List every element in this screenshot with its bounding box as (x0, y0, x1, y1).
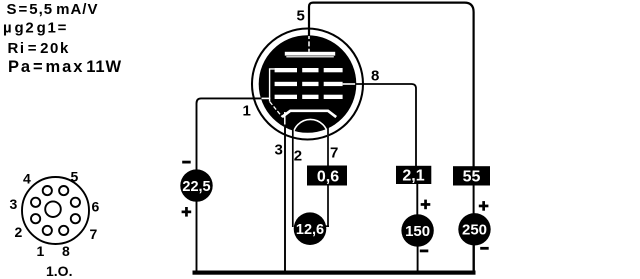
socket pin hole 8 (59, 226, 68, 235)
svg-text:8: 8 (371, 68, 379, 85)
socket pin hole 5 (59, 186, 68, 195)
wire 2,1 box to 150 voltmeter (416, 184, 418, 216)
svg-text:3: 3 (275, 142, 283, 159)
svg-text:3: 3 (10, 196, 18, 212)
cathode lead inside tube (284, 112, 286, 127)
ground rail (193, 271, 476, 275)
svg-text:2: 2 (294, 148, 302, 165)
svg-text:8: 8 (62, 243, 70, 259)
wire 250 voltmeter to rail (473, 245, 475, 271)
svg-text:1: 1 (243, 103, 251, 120)
wire 150 voltmeter to rail (417, 246, 419, 271)
milliammeter 55 mA box (453, 166, 490, 185)
cathode (282, 111, 336, 117)
svg-text:1: 1 (37, 243, 45, 259)
svg-text:6: 6 (92, 198, 100, 214)
socket pin hole 3 (31, 198, 40, 207)
socket pin hole 2 (31, 214, 40, 223)
svg-text:12,6: 12,6 (296, 222, 324, 238)
anode plate (white bar) (285, 52, 335, 58)
svg-text:1.O.: 1.O. (46, 263, 72, 279)
socket pin hole 4 (43, 186, 52, 195)
wire pin 2 heater (292, 128, 294, 227)
wire pin 8 screen grid (355, 84, 416, 167)
socket pin hole 7 (71, 214, 80, 223)
svg-text:22,5: 22,5 (182, 179, 210, 195)
svg-text:0,6: 0,6 (317, 168, 339, 185)
polarity plus (250) (479, 201, 489, 211)
polarity minus (250) (480, 247, 489, 250)
socket pin hole 1 (43, 226, 52, 235)
svg-text:µg2g1=: µg2g1= (3, 20, 68, 37)
tube V1 internal black disc (259, 35, 357, 133)
wire pin 7 heater (upper) (327, 125, 329, 167)
polarity plus (150) (421, 200, 431, 210)
pin 5 lead inside tube (dashed) (308, 34, 310, 52)
socket pin hole 6 (71, 198, 80, 207)
pin 1 lead inside tube (260, 97, 271, 99)
heater arc (293, 119, 328, 137)
grid bracket to pin 1 (270, 69, 275, 102)
svg-text:250: 250 (462, 222, 487, 239)
grid row g2 (middle, to pin 8) (275, 82, 358, 86)
voltmeter 250 V (458, 213, 490, 245)
grid row g1 (bottom) (275, 95, 343, 99)
svg-text:7: 7 (90, 226, 98, 242)
svg-text:4: 4 (23, 171, 31, 187)
wire pin 3 cathode (284, 125, 286, 272)
svg-text:2: 2 (15, 224, 23, 240)
svg-text:2,1: 2,1 (402, 167, 424, 184)
svg-text:S=5,5mA/V: S=5,5mA/V (7, 1, 99, 18)
svg-text:150: 150 (405, 223, 430, 240)
grid row g3 (top) (275, 68, 343, 72)
polarity minus (150) (420, 250, 429, 253)
svg-text:7: 7 (330, 145, 338, 162)
socket center key hole (45, 201, 61, 217)
voltmeter 150 V (401, 214, 433, 246)
wire pin 5 to anode supply (top) (309, 3, 474, 167)
svg-text:5: 5 (71, 168, 79, 184)
tube V1 envelope (252, 29, 363, 140)
ammeter 0,6 A box (307, 166, 347, 186)
beam plate tail (bracket to cathode) (270, 102, 282, 117)
voltmeter 22,5 V (180, 169, 212, 201)
svg-text:55: 55 (463, 169, 481, 186)
wire pin 7 heater (below ammeter) (327, 184, 329, 227)
voltmeter 12,6 V (294, 212, 327, 245)
svg-text:5: 5 (297, 8, 305, 25)
wire pin 1 control grid (197, 98, 262, 270)
polarity minus (22,5) (182, 161, 191, 164)
milliammeter 2,1 mA box (396, 166, 431, 185)
wire 55 box to 250 voltmeter (473, 185, 475, 214)
svg-text:Pa=max11W: Pa=max11W (8, 58, 122, 76)
polarity plus (22,5) (182, 207, 192, 217)
socket outline (22, 177, 89, 244)
wire jog into 12,6 voltmeter (321, 225, 330, 227)
